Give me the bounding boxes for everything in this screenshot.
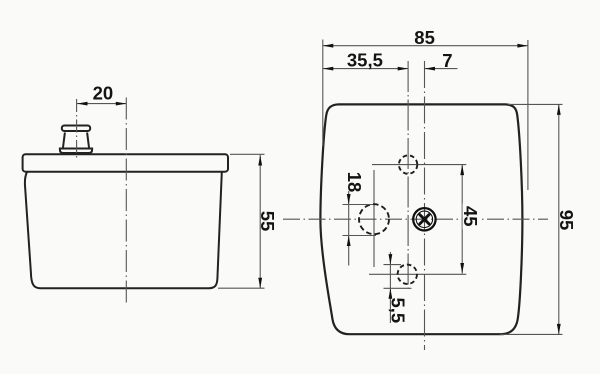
extension line bottom right (95): [500, 333, 563, 335]
svg-text:95: 95: [556, 210, 577, 231]
dimension 85 line: [323, 45, 528, 47]
housing outline: [320, 104, 522, 334]
nozzle base flange: [60, 149, 92, 154]
svg-text:18: 18: [344, 172, 365, 193]
extension line right (85): [527, 40, 529, 190]
extension line top (lid to 55 dim): [230, 153, 265, 155]
upper hole (dashed circle): [399, 155, 417, 173]
extension line left (85/35,5): [322, 40, 324, 147]
dimension 20 left arrow: [77, 102, 88, 106]
svg-text:35,5: 35,5: [347, 49, 383, 70]
dimension 18 top tick: [343, 204, 374, 206]
body centerline: [125, 98, 127, 306]
dimension 55 bottom arrow: [258, 278, 262, 289]
screw head outer ring: [413, 208, 435, 230]
dimension 45 top arrow: [460, 165, 464, 176]
dimension 20 right arrow: [116, 102, 127, 106]
svg-text:5,5: 5,5: [388, 297, 409, 323]
dimension 85 left arrow: [323, 44, 334, 48]
svg-text:45: 45: [460, 206, 481, 227]
dimension 95 top arrow: [557, 104, 561, 115]
screw head inner ring: [416, 211, 432, 227]
lower hole (dashed circle): [398, 265, 417, 284]
extension line bottom (body bottom to 55 dim): [218, 287, 265, 289]
dimension 18 line: [348, 191, 350, 266]
nozzle stem left line: [63, 133, 65, 148]
lower hole horizontal centerline: [369, 273, 466, 275]
dimension 55 top arrow: [258, 155, 262, 166]
lid (top cover bar): [23, 154, 228, 172]
left lamp hole (dashed circle): [359, 204, 389, 234]
dimension 5,5 top tick: [384, 264, 402, 266]
dimension 85 right arrow: [517, 44, 528, 48]
screw phillips cross: [420, 215, 429, 224]
extension line top right (95): [508, 103, 563, 105]
vertical line through holes: [407, 61, 409, 292]
svg-text:20: 20: [93, 83, 114, 104]
dimension 45 line: [461, 165, 463, 274]
dimension 5,5 line: [389, 252, 391, 323]
dimension 5,5 bottom arrow (points up): [389, 288, 393, 299]
svg-text:85: 85: [414, 27, 435, 48]
dimension 95 line: [558, 104, 560, 334]
dimension 18 bottom arrow (points up): [347, 236, 351, 247]
dimension 18 top arrow (points down): [347, 194, 351, 205]
body outline: [25, 172, 222, 288]
dimension 95 bottom arrow: [557, 324, 561, 335]
left circle vertical centerline: [373, 170, 375, 267]
dimension 45 bottom arrow: [460, 263, 464, 274]
dimension 5,5 bottom tick: [384, 287, 412, 289]
dimension 7 arrow and tail: [425, 68, 458, 70]
dimension 18 bottom tick: [343, 235, 377, 237]
dimension 35,5 left arrow: [323, 67, 334, 71]
horizontal centerline: [283, 218, 548, 220]
dimension 35,5 right arrow: [398, 67, 409, 71]
nozzle stem right line: [87, 133, 89, 148]
dimension 20 line: [77, 103, 126, 105]
dimension 35,5 line: [323, 68, 408, 70]
nozzle cap: [62, 126, 90, 132]
upper hole horizontal centerline: [372, 164, 466, 166]
vertical centerline through screw: [424, 61, 426, 350]
nozzle centerline: [76, 99, 78, 160]
svg-text:55: 55: [257, 211, 278, 232]
dimension 5,5 top arrow (points down): [389, 254, 393, 265]
svg-text:7: 7: [442, 50, 452, 71]
dimension 45 label: [463, 204, 479, 230]
dimension 55 line: [259, 155, 261, 288]
